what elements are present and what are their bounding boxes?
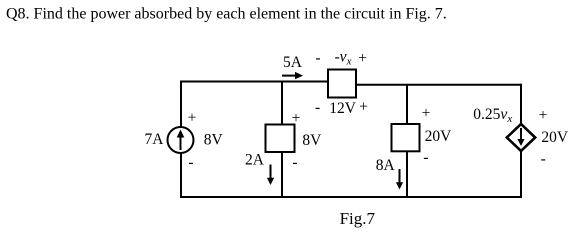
svg-text:-: - (315, 99, 320, 116)
svg-text:20V: 20V (541, 129, 569, 146)
svg-text:+: + (359, 98, 368, 115)
svg-text:Fig.7: Fig.7 (340, 209, 376, 228)
svg-text:+: + (188, 110, 197, 127)
svg-text:8V: 8V (204, 132, 224, 149)
svg-text:-: - (541, 151, 546, 168)
svg-text:8V: 8V (302, 132, 322, 149)
svg-text:5A: 5A (283, 54, 303, 71)
svg-text:8A: 8A (376, 157, 396, 174)
svg-text:2A: 2A (245, 151, 265, 168)
svg-text:-: - (292, 154, 297, 171)
svg-text:7A: 7A (145, 131, 165, 148)
svg-text:+: + (422, 105, 431, 122)
svg-text:20V: 20V (425, 128, 453, 145)
svg-text:-: - (315, 50, 320, 67)
svg-text:12V: 12V (329, 100, 357, 117)
svg-text:+: + (539, 107, 548, 124)
svg-text:+: + (292, 110, 301, 127)
svg-text:0.25vx: 0.25vx (473, 106, 512, 125)
svg-text:+: + (358, 50, 367, 67)
svg-text:-: - (188, 154, 193, 171)
svg-text:-: - (423, 149, 428, 166)
svg-text:Q8. Find the power absorbed by: Q8. Find the power absorbed by each elem… (6, 5, 447, 22)
